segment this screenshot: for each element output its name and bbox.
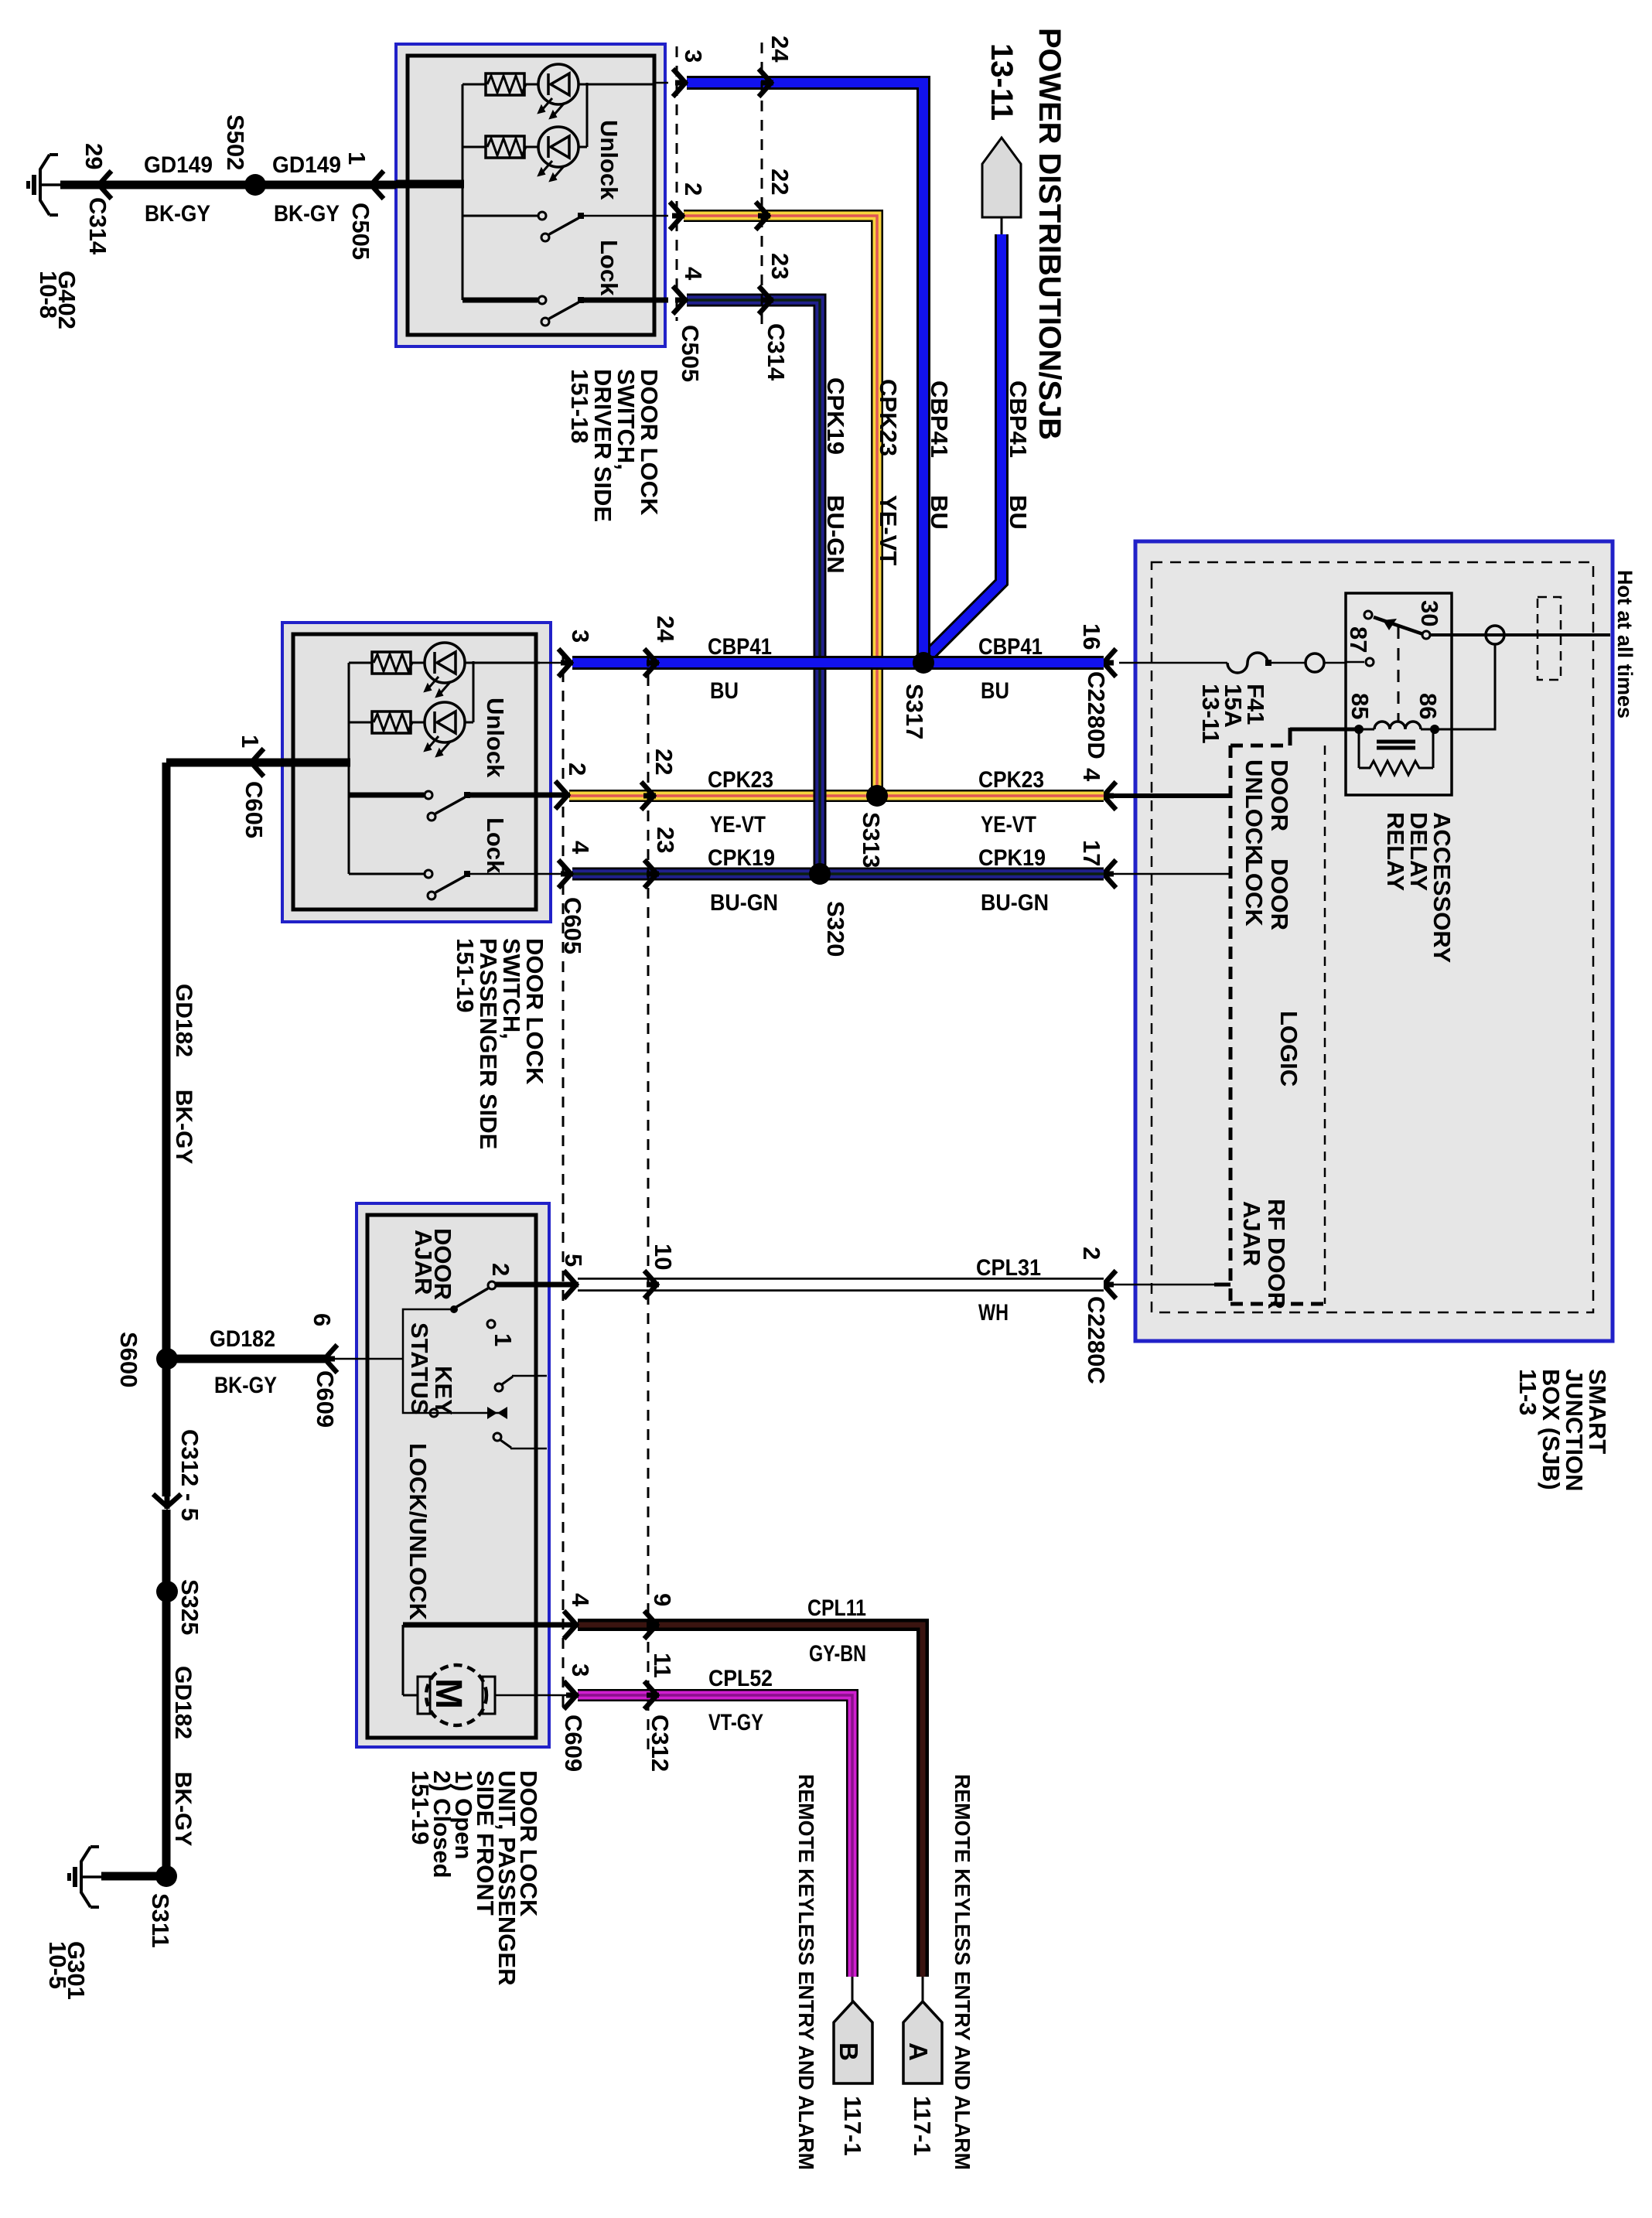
wire GD149 BK-GY [60, 152, 396, 227]
svg-text:4: 4 [567, 841, 594, 855]
svg-text:CPL11: CPL11 [807, 1595, 866, 1621]
svg-text:BU: BU [981, 678, 1009, 704]
motor M [418, 1665, 575, 1725]
LED driver unlock 2 [524, 83, 587, 181]
svg-text:DOOR: DOOR [1266, 759, 1293, 831]
label DOOR UNLOCK [1241, 759, 1293, 862]
svg-text:BU-GN: BU-GN [981, 890, 1049, 916]
svg-text:16: 16 [1078, 623, 1105, 650]
svg-text:10-5: 10-5 [44, 1941, 71, 1989]
connector C314 pin 29 [80, 143, 111, 255]
svg-text:C505: C505 [677, 325, 704, 382]
coil core bars [1377, 740, 1415, 744]
svg-text:86: 86 [1415, 693, 1442, 719]
resistor driver unlock 2 [462, 136, 526, 158]
wire GD182 vertical run [166, 763, 196, 1876]
LED driver unlock 1 [524, 64, 654, 118]
svg-text:85: 85 [1347, 693, 1374, 719]
svg-text:151-19: 151-19 [452, 938, 479, 1013]
svg-text:22: 22 [650, 749, 678, 775]
passenger lock switch contacts [349, 870, 540, 899]
svg-text:22: 22 [766, 169, 794, 195]
svg-text:C314: C314 [84, 197, 111, 255]
svg-text:6: 6 [309, 1313, 336, 1326]
SJB caption SMART JUNCTION BOX (SJB) 11-3 [1514, 1369, 1611, 1491]
svg-text:GD149: GD149 [144, 152, 213, 178]
relay caption ACCESSORY DELAY RELAY [1382, 812, 1456, 964]
key status switch lower [493, 1433, 547, 1449]
svg-text:Lock: Lock [596, 240, 623, 296]
svg-text:11: 11 [649, 1653, 676, 1678]
relay resistor [1358, 729, 1360, 768]
svg-text:3: 3 [680, 49, 707, 63]
svg-text:11-3: 11-3 [1514, 1369, 1541, 1415]
svg-text:CBP41: CBP41 [926, 380, 953, 458]
svg-text:117-1: 117-1 [839, 2096, 866, 2156]
SJB pin 4 connector [1078, 768, 1230, 810]
svg-text:24: 24 [652, 616, 679, 643]
svg-text:13-11: 13-11 [1197, 684, 1224, 744]
svg-text:CPK23: CPK23 [708, 767, 773, 793]
svg-text:KEY: KEY [430, 1366, 457, 1415]
resistor passenger unlock 1 [349, 652, 412, 674]
svg-text:29: 29 [80, 143, 108, 169]
svg-text:Unlock: Unlock [596, 120, 623, 200]
svg-text:AJAR: AJAR [410, 1230, 437, 1295]
svg-text:BU: BU [1005, 495, 1032, 530]
svg-text:10: 10 [650, 1244, 677, 1270]
relay blade [1364, 611, 1372, 619]
svg-text:BK-GY: BK-GY [274, 201, 340, 227]
wire CPL11 GY-BN [578, 1595, 923, 1977]
svg-text:S317: S317 [901, 684, 928, 739]
svg-text:13-11: 13-11 [985, 43, 1019, 121]
svg-text:DOOR: DOOR [1266, 858, 1293, 930]
svg-text:BU: BU [710, 678, 739, 704]
logic box (dashed) [1230, 746, 1325, 1304]
svg-text:S600: S600 [115, 1332, 142, 1387]
splice S502 [222, 114, 266, 196]
wire relay 85 to logic box [1290, 728, 1359, 746]
svg-text:VT-GY: VT-GY [708, 1710, 763, 1735]
wire CBP41 BU from driver lock switch pin 3 [687, 83, 953, 657]
svg-text:C2280C: C2280C [1083, 1296, 1110, 1384]
LED passenger unlock 1 [411, 643, 540, 697]
svg-text:BU: BU [926, 495, 953, 530]
svg-text:CPK19: CPK19 [822, 377, 849, 455]
svg-text:GD182: GD182 [210, 1326, 275, 1352]
ground G402 [26, 155, 80, 329]
label DOOR AJAR [410, 1228, 456, 1300]
fuse F41 15A [1119, 653, 1346, 744]
svg-text:117-1: 117-1 [909, 2096, 936, 2156]
off-page connector B 117-1 [834, 1977, 872, 2156]
svg-text:WH: WH [978, 1300, 1009, 1326]
svg-text:1: 1 [237, 735, 264, 748]
svg-text:4: 4 [680, 267, 707, 281]
passenger unlock switch contacts [349, 791, 540, 821]
svg-text:RF DOOR: RF DOOR [1263, 1199, 1290, 1309]
svg-text:30: 30 [1416, 600, 1443, 626]
svg-text:GD182 BK-GY: GD182 BK-GY [170, 1666, 196, 1846]
connector C505 dashed line at driver box [654, 46, 707, 382]
svg-text:4: 4 [567, 1593, 594, 1607]
svg-text:C312: C312 [647, 1715, 674, 1772]
svg-text:Hot at all times: Hot at all times [1613, 570, 1637, 718]
connector C312-5 inline [153, 1429, 203, 1521]
svg-text:C2280D: C2280D [1083, 671, 1110, 759]
wire CPK19 BU-GN main horizontal [572, 845, 1104, 916]
svg-text:BK-GY: BK-GY [214, 1373, 277, 1398]
svg-text:S311: S311 [147, 1893, 174, 1948]
wire CPK19 BU-GN from driver lock switch pin 4 [687, 300, 849, 870]
svg-text:LOCK/UNLOCK: LOCK/UNLOCK [404, 1443, 432, 1621]
connector C314 dashed line right of driver box [756, 36, 794, 381]
SJB pin 17 connector [1078, 840, 1230, 888]
svg-text:4: 4 [1078, 768, 1105, 782]
door lock switch passenger side box [282, 623, 551, 922]
resistor passenger unlock 2 [349, 711, 412, 733]
resistor driver unlock 1 [462, 73, 526, 95]
connector C314 dashed line right of passenger box [641, 616, 679, 1754]
driver lock switch contacts [462, 296, 654, 326]
svg-text:24: 24 [766, 36, 794, 63]
connector C605 dashed line at passenger box [540, 630, 594, 1709]
svg-text:151-19: 151-19 [407, 1770, 434, 1845]
driver unlock switch contacts [462, 212, 654, 241]
svg-text:GY-BN: GY-BN [809, 1641, 866, 1667]
svg-text:2: 2 [564, 763, 591, 776]
svg-text:A: A [904, 2042, 933, 2061]
svg-text:M: M [428, 1678, 469, 1709]
wire CPL31 WH [578, 1255, 1104, 1326]
pin 87 contact [1366, 658, 1374, 666]
svg-text:RELAY: RELAY [1382, 812, 1409, 892]
off-page connector POWER DISTRIBUTION/SJB [982, 28, 1067, 440]
svg-text:YE-VT: YE-VT [710, 812, 766, 838]
svg-text:S313: S313 [858, 812, 885, 868]
svg-text:POWER DISTRIBUTION/SJB: POWER DISTRIBUTION/SJB [1032, 28, 1067, 440]
svg-text:C314: C314 [763, 323, 790, 381]
svg-text:BU-GN: BU-GN [710, 890, 778, 916]
svg-text:UNLOCK: UNLOCK [1241, 759, 1268, 862]
svg-text:S320: S320 [822, 901, 849, 957]
splice S600 [115, 1332, 178, 1387]
door lock switch driver side box [396, 44, 665, 346]
svg-text:LOGIC: LOGIC [1275, 1011, 1302, 1087]
svg-text:CPK23: CPK23 [875, 379, 902, 456]
svg-text:87: 87 [1345, 626, 1372, 653]
passenger internal bus wire [282, 663, 350, 874]
svg-text:2: 2 [487, 1263, 514, 1276]
svg-text:2: 2 [680, 183, 707, 196]
off-page connector A 117-1 [903, 1977, 942, 2156]
svg-text:3: 3 [567, 1663, 594, 1677]
svg-text:STATUS: STATUS [406, 1322, 433, 1414]
wire CBP41 BU from power distribution (vertical + diagonal) [922, 234, 1032, 662]
mechanical link dashed [1398, 626, 1400, 722]
ground G301 [44, 1847, 158, 2000]
door ajar switch [450, 1263, 575, 1313]
connector pins 5 / 10 on CPL31 [560, 1244, 677, 1298]
SJB pin 16 connector C2280D [1078, 623, 1116, 759]
svg-text:LOCK: LOCK [1241, 858, 1268, 926]
svg-text:BK-GY: BK-GY [145, 201, 210, 227]
lock motor circuit [403, 1625, 575, 1695]
svg-text:CBP41: CBP41 [978, 634, 1043, 660]
svg-text:REMOTE KEYLESS ENTRY AND ALARM: REMOTE KEYLESS ENTRY AND ALARM [794, 1774, 818, 2170]
splice S325 [156, 1579, 203, 1635]
svg-text:CPK23: CPK23 [978, 767, 1044, 793]
splice S311 [147, 1865, 177, 1948]
svg-text:2: 2 [1078, 1247, 1105, 1260]
svg-text:C505: C505 [347, 203, 374, 260]
door lock unit passenger side front box [357, 1203, 549, 1747]
SJB pin 2 connector C2280C [1078, 1247, 1230, 1384]
key status frame [403, 1309, 507, 1419]
svg-text:YE-VT: YE-VT [981, 812, 1036, 838]
svg-text:1: 1 [490, 1333, 517, 1346]
driver box caption DOOR LOCK SWITCH DRIVER SIDE 151-18 [566, 369, 663, 522]
svg-text:CPL31: CPL31 [976, 1255, 1041, 1281]
svg-text:1: 1 [343, 152, 370, 165]
svg-text:CPK19: CPK19 [978, 845, 1046, 871]
svg-text:B: B [835, 2042, 863, 2061]
connector C605 pin 1 passenger [166, 735, 282, 838]
svg-text:GD149: GD149 [272, 152, 341, 178]
svg-text:CPL52: CPL52 [708, 1666, 773, 1691]
driver internal bus wire [396, 84, 464, 300]
svg-text:REMOTE KEYLESS ENTRY AND ALARM: REMOTE KEYLESS ENTRY AND ALARM [951, 1774, 974, 2170]
door ajar unused contact 1 [487, 1320, 517, 1346]
svg-text:17: 17 [1078, 840, 1105, 866]
wire CBP41 BU main horizontal [572, 634, 1104, 704]
svg-text:S502: S502 [222, 114, 249, 170]
svg-text:9: 9 [649, 1593, 676, 1606]
svg-text:Lock: Lock [482, 817, 509, 874]
splice S317 [901, 652, 934, 739]
svg-text:AJAR: AJAR [1238, 1201, 1265, 1266]
svg-text:YE-VT: YE-VT [875, 495, 902, 565]
wire CPK23 YE-VT from driver lock switch pin 2 [684, 216, 902, 792]
svg-text:C605: C605 [559, 897, 586, 954]
svg-text:C609: C609 [312, 1370, 339, 1428]
svg-text:C605: C605 [241, 781, 268, 838]
junction bullet on hot line [1486, 626, 1504, 644]
connector C505 pin 1 [343, 152, 384, 260]
label DOOR LOCK [1241, 858, 1293, 930]
svg-text:C312 - 5: C312 - 5 [176, 1429, 203, 1521]
wire CPL52 VT-GY [578, 1666, 852, 1977]
svg-text:CBP41: CBP41 [1005, 380, 1032, 458]
svg-text:10-8: 10-8 [35, 271, 62, 319]
relay coil [1359, 729, 1374, 731]
svg-text:S325: S325 [176, 1579, 203, 1635]
key status switch upper [495, 1376, 547, 1391]
lock unit caption DOOR LOCK UNIT PASSENGER SIDE FRONT [407, 1770, 542, 1985]
accessory delay relay [1345, 593, 1495, 795]
connector pins 4 / 9 on CPL11 [564, 1593, 676, 1639]
pin 30 [1422, 631, 1430, 639]
svg-text:23: 23 [766, 253, 794, 279]
svg-text:23: 23 [652, 827, 679, 853]
svg-text:CBP41: CBP41 [708, 634, 772, 660]
svg-text:BU-GN: BU-GN [822, 495, 849, 574]
splice S320 [809, 863, 849, 957]
svg-text:CPK19: CPK19 [708, 845, 775, 871]
label RF DOOR AJAR [1238, 1199, 1290, 1309]
passenger box caption DOOR LOCK SWITCH PASSENGER SIDE 151-19 [452, 938, 548, 1149]
svg-text:151-18: 151-18 [566, 369, 593, 444]
svg-text:Unlock: Unlock [482, 698, 509, 778]
wire 86 to hot junction [1435, 644, 1495, 729]
wire CPK23 YE-VT main horizontal [569, 767, 1104, 838]
svg-text:5: 5 [560, 1254, 587, 1267]
connector C609 pin 6 [167, 1313, 403, 1428]
svg-text:GD182 BK-GY: GD182 BK-GY [171, 984, 196, 1164]
LED passenger unlock 2 [411, 661, 473, 756]
connector pins 3 / 11 on CPL52 [560, 1653, 676, 1772]
svg-text:3: 3 [567, 630, 594, 643]
svg-text:C609: C609 [560, 1715, 587, 1772]
smart junction box SJB outline [1135, 541, 1613, 1341]
hot at all times feed line [1429, 597, 1610, 680]
splice S313 [858, 785, 888, 868]
